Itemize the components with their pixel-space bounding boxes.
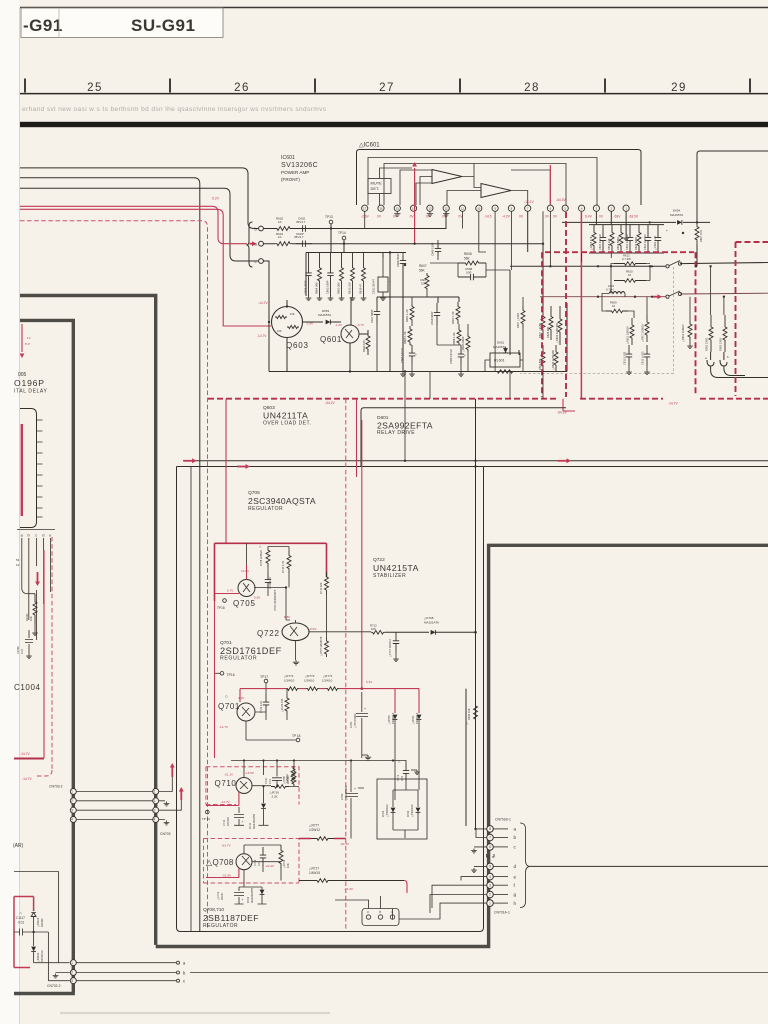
connector pin c	[366, 915, 370, 919]
wire a rail	[263, 240, 543, 244]
svg-text:C605 16V22: C605 16V22	[400, 348, 404, 363]
svg-text:Q705: Q705	[233, 599, 256, 608]
svg-text:+: +	[666, 229, 668, 233]
R611 1/2W10	[630, 318, 634, 345]
svg-text:△D705: △D705	[387, 715, 391, 724]
svg-text:-2.6V: -2.6V	[361, 215, 370, 219]
top bus PSU y760.5	[231, 761, 406, 778]
capacitor C606 16V22	[458, 347, 464, 364]
resistor R621	[410, 304, 414, 322]
svg-text:△P300DLF: △P300DLF	[410, 804, 414, 817]
svg-text:26: 26	[234, 82, 250, 94]
svg-text:1/2W10: 1/2W10	[322, 679, 333, 683]
wire c out	[76, 980, 176, 982]
svg-text:2SB1187DEF: 2SB1187DEF	[203, 913, 259, 923]
wires a-e drop	[22, 538, 51, 640]
red dashed box Q710	[206, 767, 299, 805]
svg-text:R562 130K: R562 130K	[719, 338, 723, 351]
svg-text:△R723 156: △R723 156	[280, 698, 284, 712]
input brace	[247, 222, 253, 267]
red box around Q705	[215, 543, 327, 601]
svg-text:56K: 56K	[419, 269, 426, 273]
vertical wire x475	[475, 399, 477, 829]
resistor R604	[318, 253, 322, 297]
svg-text:0.7.2W: 0.7.2W	[622, 257, 631, 261]
pink dashed overload sense wire	[20, 221, 208, 929]
connector CN703 pin 3	[153, 807, 159, 813]
svg-text:R561 130K: R561 130K	[705, 338, 709, 351]
svg-text:3: 3	[71, 808, 73, 812]
connector CN703 pin 2	[153, 798, 159, 804]
connector pin 2 (g)	[487, 891, 494, 898]
svg-text:C614 100V10: C614 100V10	[643, 234, 647, 250]
resistor R628	[549, 306, 553, 340]
TP16	[220, 672, 224, 676]
svg-text:P-P: P-P	[25, 342, 30, 346]
svg-text:C609 500P: C609 500P	[396, 253, 400, 267]
transistor Q722	[282, 623, 309, 641]
svg-text:c: c	[367, 910, 369, 914]
connector CN703-2 pin 2	[70, 798, 76, 804]
long rail upper (y460.8)	[183, 460, 768, 462]
red box relay-drive left edge	[356, 399, 358, 477]
red feed from -64.3V bus to Q705 box	[225, 399, 227, 543]
op-amp A1 triangle	[432, 170, 462, 184]
svg-text:-64.3V: -64.3V	[556, 198, 567, 202]
svg-text:TP 18: TP 18	[292, 734, 301, 738]
svg-text:10K: 10K	[286, 863, 290, 868]
svg-text:erhand svl new oasi w s ts ber: erhand svl new oasi w s ts berlhsrm bd d…	[22, 106, 327, 113]
svg-text:0.7µH: 0.7µH	[606, 288, 614, 292]
TP17	[264, 679, 268, 683]
resistor R620	[637, 225, 641, 253]
vertical wire x466 up from CN701	[465, 689, 467, 826]
svg-text:DPI34F: DPI34F	[40, 918, 44, 927]
svg-text:R607: R607	[419, 264, 427, 268]
svg-text:R613 22K: R613 22K	[348, 282, 352, 294]
svg-text:g: g	[514, 892, 517, 897]
svg-text:13: 13	[428, 207, 432, 211]
svg-text:TP15: TP15	[217, 606, 225, 610]
svg-text:1/2W10: 1/2W10	[284, 679, 295, 683]
svg-text:R624 10K: R624 10K	[467, 708, 471, 720]
wires Q701	[246, 689, 296, 740]
svg-text:10K: 10K	[277, 329, 282, 333]
svg-text:C613 35V47: C613 35V47	[372, 279, 376, 294]
svg-text:Q601: Q601	[320, 335, 342, 344]
red dashed box Q708	[204, 839, 300, 884]
power amp box bottom	[269, 303, 567, 372]
long pink dashed vertical x345.8	[345, 399, 347, 929]
svg-text:1/2W10: 1/2W10	[304, 679, 315, 683]
diode box D704/D703	[377, 779, 427, 839]
model label box SU-G91	[21, 8, 223, 38]
resistor R667 10K	[695, 222, 699, 244]
svg-text:+: +	[354, 787, 356, 791]
svg-text:1: 1	[71, 790, 73, 794]
wire pin drops	[365, 211, 612, 371]
node junctions on speaker lines	[651, 265, 653, 267]
capacitor C640 150P	[435, 244, 441, 256]
svg-text:c: c	[35, 533, 37, 538]
svg-text:R618 10K: R618 10K	[607, 238, 611, 250]
resistor R623	[558, 306, 562, 345]
red corner 64.3 label	[563, 399, 575, 411]
red rail left of regulator	[214, 601, 216, 758]
TP15	[223, 599, 227, 603]
inner board outline thick (digital delay block)	[14, 320, 75, 993]
C611 0.022	[626, 345, 632, 366]
svg-text:10K: 10K	[29, 616, 33, 621]
capacitor C619	[627, 225, 633, 253]
svg-text:6.8V: 6.8V	[284, 615, 291, 619]
capacitor C613 35V47 (electrolytic box)	[378, 277, 388, 292]
svg-text:R630 10K: R630 10K	[362, 340, 366, 352]
svg-text:△C620 0.22: △C620 0.22	[653, 235, 657, 250]
keying marks	[487, 854, 495, 857]
svg-text:TP 19: TP 19	[202, 817, 210, 821]
svg-text:REGULATOR: REGULATOR	[203, 923, 238, 929]
svg-text:△B1103: △B1103	[36, 917, 40, 927]
left feed wires into CN702-2	[14, 872, 70, 981]
svg-text:SU-G91: SU-G91	[131, 16, 195, 35]
svg-text:R616 680K: R616 680K	[616, 237, 620, 250]
CN703 right hooks	[159, 766, 182, 820]
svg-text:(FRONT): (FRONT)	[281, 177, 300, 182]
svg-text:-14.5: -14.5	[484, 215, 492, 219]
heavy red dashed bottom bus	[208, 398, 768, 400]
svg-text:OVER LOAD DET.: OVER LOAD DET.	[263, 421, 311, 427]
connector pin 7 (b)	[487, 834, 494, 841]
wire input line c	[20, 188, 258, 261]
svg-text:-1.8V: -1.8V	[306, 322, 313, 326]
red supply rail from pin4	[580, 212, 582, 399]
svg-text:1/2W10: 1/2W10	[287, 775, 290, 784]
svg-text:UN4215TA: UN4215TA	[373, 563, 419, 573]
svg-text:-14.1V: -14.1V	[524, 200, 535, 204]
connector pin 5 (d)	[487, 863, 494, 870]
svg-text:△R777: △R777	[309, 824, 319, 828]
board outline thick polyline (left block to bottom-right block)	[20, 296, 768, 947]
svg-text:R605 1.5K: R605 1.5K	[403, 331, 407, 344]
wire b out (continues to right edge)	[76, 972, 176, 974]
resistor R618	[610, 225, 614, 253]
svg-text:-14.7V: -14.7V	[219, 725, 229, 729]
svg-text:MA4150MTB: MA4150MTB	[252, 814, 256, 829]
svg-text:2: 2	[154, 799, 156, 803]
svg-text:C604 390P: C604 390P	[304, 280, 308, 294]
connector CN703-2 pin 4	[70, 817, 76, 823]
svg-text:Q603: Q603	[286, 341, 309, 350]
svg-text:△C707 100V2.2: △C707 100V2.2	[389, 638, 392, 657]
svg-text:R1041: R1041	[25, 613, 29, 621]
bus for input filter row	[306, 229, 406, 297]
wires Q708	[239, 845, 281, 889]
transistor Q603 (dual)	[272, 307, 303, 338]
resistor R616	[619, 225, 623, 253]
svg-text:C771: C771	[396, 774, 400, 781]
svg-text:MA165TA: MA165TA	[318, 313, 331, 317]
svg-text:2: 2	[71, 971, 73, 975]
svg-text:6: 6	[489, 845, 491, 849]
svg-text:O196P: O196P	[14, 378, 45, 388]
svg-text:35V47: 35V47	[220, 892, 224, 900]
svg-text:-21.9V: -21.9V	[222, 874, 232, 878]
capacitor C615	[600, 225, 606, 253]
capacitor C614	[645, 225, 651, 253]
svg-text:△P300DLF: △P300DLF	[385, 804, 389, 817]
wires Q722	[296, 595, 372, 660]
svg-text:D654: D654	[673, 209, 681, 213]
connector pin 8 (a)	[487, 826, 494, 833]
red dashed box edge x566	[565, 212, 567, 397]
svg-text:△75V15003: △75V15003	[353, 713, 357, 728]
svg-text:1: 1	[71, 961, 73, 965]
regulator board box	[177, 467, 484, 932]
svg-text:TP16: TP16	[227, 673, 235, 677]
relay mechanical link (dashed)	[520, 267, 674, 374]
svg-text:4.2V: 4.2V	[238, 696, 245, 700]
svg-text:0.01: 0.01	[20, 648, 24, 654]
grounds under IC pins	[394, 211, 400, 216]
svg-text:△R625 680K: △R625 680K	[461, 336, 465, 352]
svg-text:-21.1V: -21.1V	[224, 773, 234, 777]
svg-text:1V: 1V	[27, 336, 31, 340]
speaker line (upper)	[510, 263, 768, 267]
resistor R603	[340, 253, 344, 297]
svg-text:54: 54	[16, 558, 20, 562]
svg-text:CN703-2: CN703-2	[49, 785, 63, 789]
svg-text:10: 10	[628, 273, 632, 277]
resistor R602 1K	[275, 227, 292, 231]
test point TP14	[342, 236, 346, 240]
op-amp IC601 outline	[357, 150, 642, 206]
IC internal wires	[368, 158, 597, 206]
resistor R627 130K	[521, 306, 525, 328]
svg-text:0.01: 0.01	[257, 860, 261, 866]
delay IC pin stubs	[37, 420, 43, 517]
svg-text:C612 0.033: C612 0.033	[641, 351, 645, 365]
capacitor C620	[655, 225, 661, 253]
red stub top	[21, 324, 23, 352]
svg-text:14.6V: 14.6V	[241, 569, 250, 573]
grounds mid	[400, 372, 406, 377]
red dashed box edge x542	[541, 252, 543, 397]
svg-text:C702: C702	[340, 793, 344, 800]
svg-text:△R774: △R774	[284, 674, 294, 678]
red supply return -14.7V	[14, 758, 44, 760]
connector CN703 pin 4	[153, 817, 159, 823]
R613b 1/2W10	[645, 315, 649, 342]
bus wires mid cluster	[351, 253, 459, 372]
svg-text:16: 16	[379, 207, 383, 211]
resistor R605	[408, 326, 412, 345]
resistor R622	[456, 302, 460, 324]
svg-text:3: 3	[489, 883, 491, 887]
capacitor C617	[374, 302, 380, 324]
svg-text:MUTE: MUTE	[371, 181, 383, 186]
svg-text:C711: C711	[222, 819, 226, 826]
svg-text:16V100: 16V100	[226, 816, 230, 826]
ground near C771	[411, 769, 417, 771]
svg-text:Q710: Q710	[215, 779, 237, 788]
svg-text:-14.7V: -14.7V	[257, 334, 267, 338]
svg-text:1/2W12: 1/2W12	[309, 828, 320, 832]
input terminal a	[259, 241, 264, 246]
svg-text:△C712: △C712	[216, 891, 220, 900]
svg-text:-63.5V: -63.5V	[629, 215, 640, 219]
red wires Q705	[215, 565, 247, 594]
svg-text:3: 3	[71, 979, 73, 983]
svg-text:△: △	[225, 694, 228, 698]
relay contact S2	[666, 295, 669, 298]
svg-text:+: +	[415, 353, 417, 357]
thick separator bar	[20, 122, 768, 127]
svg-text:-64.2V: -64.2V	[325, 401, 336, 405]
input terminal b	[259, 226, 264, 231]
op-amp A2 triangle	[481, 184, 511, 198]
svg-text:△R623 1/2W 680: △R623 1/2W 680	[555, 322, 559, 343]
svg-text:35V4.7: 35V4.7	[294, 235, 304, 239]
connector brace	[520, 823, 530, 908]
svg-text:10P: 10P	[421, 282, 426, 286]
digital delay IC box (right part)	[20, 409, 37, 528]
R562 130K	[723, 315, 727, 352]
long wire from pin d to right edge	[530, 865, 768, 867]
svg-text:29: 29	[671, 82, 687, 94]
capacitor C609 500P	[400, 256, 406, 268]
svg-text:CN701A-1: CN701A-1	[494, 911, 510, 915]
svg-text:C615 100V22: C615 100V22	[598, 234, 602, 250]
connector pin 3 (f)	[487, 882, 494, 889]
svg-text:+: +	[364, 707, 366, 711]
svg-text:-14.7V: -14.7V	[20, 752, 31, 756]
svg-text:C607: C607	[420, 278, 427, 282]
transistor Q601	[341, 325, 359, 343]
svg-text:TP13: TP13	[325, 215, 333, 219]
test point TP13	[329, 220, 333, 224]
svg-text:C701: C701	[349, 721, 353, 728]
heavy red dashed right box corner	[736, 242, 768, 396]
resistor R619	[362, 253, 366, 297]
svg-text:R603 56K: R603 56K	[337, 282, 341, 294]
svg-text:POWER AMP: POWER AMP	[281, 170, 309, 175]
svg-text:d: d	[42, 533, 44, 538]
svg-text:-G91: -G91	[23, 16, 63, 35]
red 6.4V rail with series resistors	[240, 689, 419, 713]
svg-text:10: 10	[477, 207, 481, 211]
svg-text:2SC3940AQSTA: 2SC3940AQSTA	[248, 496, 316, 506]
svg-text:7: 7	[489, 836, 491, 840]
svg-text:R667 10 K: R667 10 K	[699, 229, 703, 242]
resistor R625 680K	[466, 334, 470, 352]
svg-text:△D708: △D708	[424, 616, 434, 620]
svg-text:MA4240MTB: MA4240MTB	[250, 888, 254, 903]
svg-text:△75V15000: △75V15000	[344, 785, 348, 800]
svg-text:4: 4	[71, 818, 73, 822]
svg-text:△R629 1/2W 680: △R629 1/2W 680	[551, 349, 555, 370]
red arrow on wire c	[37, 572, 39, 583]
svg-text:-63V: -63V	[614, 215, 622, 219]
svg-text:R621 1.2K: R621 1.2K	[405, 309, 409, 322]
wire a out	[76, 962, 176, 964]
svg-text:5.8V: 5.8V	[254, 596, 261, 600]
red bus bar inside IC	[21, 424, 23, 516]
svg-text:DET.: DET.	[371, 186, 380, 191]
TP19	[206, 810, 210, 814]
svg-text:△R772: △R772	[305, 674, 315, 678]
svg-text:-14.7V: -14.7V	[22, 777, 33, 781]
feedback wire from right edge	[697, 151, 768, 266]
svg-text:C603 190P: C603 190P	[326, 280, 330, 294]
wire c drop	[263, 261, 269, 372]
svg-text:1: 1	[489, 901, 491, 905]
svg-text:RL601: RL601	[494, 359, 505, 363]
svg-text:△R707 MA26076: △R707 MA26076	[320, 636, 323, 656]
relay contact S1	[666, 265, 669, 268]
emitter wire Q710	[252, 785, 299, 788]
svg-text:△R771: △R771	[323, 674, 333, 678]
wire crossings into lower section	[405, 372, 543, 461]
vertical bus x191	[190, 467, 192, 932]
svg-text:R627 △130K: R627 △130K	[516, 313, 520, 328]
svg-text:8: 8	[489, 827, 491, 831]
svg-text:R619 47: R619 47	[359, 283, 363, 294]
long red vertical x361.8	[361, 420, 363, 689]
svg-text:ITAL DELAY: ITAL DELAY	[14, 389, 47, 395]
red wire to input a	[20, 206, 247, 243]
svg-text:1: 1	[154, 790, 156, 794]
svg-text:MA165TA: MA165TA	[670, 213, 683, 217]
svg-text:R620 680K: R620 680K	[634, 237, 638, 250]
svg-text:12: 12	[445, 207, 449, 211]
svg-text:C710: C710	[265, 777, 268, 784]
svg-text:RELAY DRIVE: RELAY DRIVE	[377, 430, 415, 436]
svg-text:CN702-2: CN702-2	[47, 984, 61, 988]
svg-text:△Q708: △Q708	[206, 858, 234, 867]
svg-text:0.01: 0.01	[400, 775, 404, 781]
svg-text:a: a	[514, 827, 517, 832]
svg-text:2: 2	[489, 893, 491, 897]
black wires Q705	[247, 543, 291, 620]
output pins a-e	[17, 529, 55, 531]
svg-text:DPI35CLF: DPI35CLF	[40, 949, 44, 962]
wires right cluster	[510, 211, 543, 355]
R614 1/4W47	[688, 321, 692, 340]
svg-text:15: 15	[396, 207, 400, 211]
svg-text:R711 22K: R711 22K	[319, 582, 323, 594]
svg-text:25: 25	[87, 82, 103, 94]
svg-text:h: h	[514, 901, 517, 906]
svg-text:△R617 1/2W10: △R617 1/2W10	[641, 324, 645, 342]
svg-text:1K: 1K	[278, 220, 282, 224]
svg-text:-1.2V: -1.2V	[335, 323, 342, 327]
svg-text:e: e	[514, 874, 517, 879]
svg-text:D702: D702	[246, 896, 250, 903]
svg-text:-64.3V: -64.3V	[340, 842, 350, 846]
svg-text:27: 27	[379, 82, 395, 94]
relay RL601	[490, 353, 520, 367]
resistor R627	[541, 306, 545, 340]
TP18	[296, 738, 300, 742]
ruler scale line	[20, 93, 768, 95]
mute detector block	[368, 179, 391, 194]
connector CN702-2 pin 3	[70, 978, 76, 984]
IC601 pins	[362, 205, 368, 211]
resistor R613	[351, 253, 355, 297]
heavy red dashed vertical (x696)	[695, 252, 697, 396]
svg-text:REGULATOR: REGULATOR	[248, 506, 283, 512]
